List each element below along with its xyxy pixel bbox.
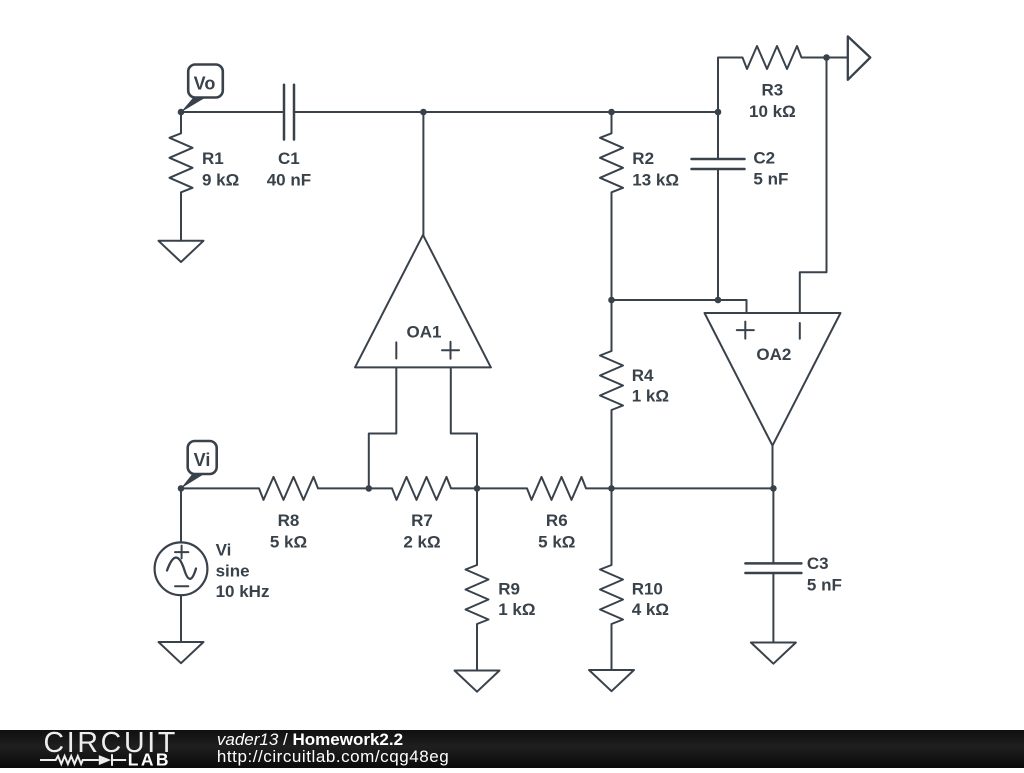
svg-text:R2: R2 — [632, 149, 654, 168]
svg-text:9 kΩ: 9 kΩ — [202, 170, 239, 189]
svg-text:Vi: Vi — [216, 541, 232, 560]
svg-text:5 kΩ: 5 kΩ — [270, 532, 307, 551]
svg-text:1 kΩ: 1 kΩ — [632, 387, 669, 406]
svg-text:R3: R3 — [762, 81, 784, 100]
svg-text:5 nF: 5 nF — [753, 170, 788, 189]
svg-text:OA2: OA2 — [756, 345, 791, 364]
svg-text:R10: R10 — [632, 579, 663, 598]
svg-text:LAB: LAB — [128, 750, 171, 769]
svg-text:40 nF: 40 nF — [267, 170, 311, 189]
svg-text:5 nF: 5 nF — [807, 575, 842, 594]
svg-text:13 kΩ: 13 kΩ — [632, 170, 679, 189]
svg-text:OA1: OA1 — [407, 323, 442, 342]
svg-text:R7: R7 — [411, 511, 433, 530]
svg-text:http://circuitlab.com/cqg48eg: http://circuitlab.com/cqg48eg — [217, 747, 449, 766]
svg-text:R6: R6 — [546, 511, 568, 530]
svg-text:Vi: Vi — [194, 450, 211, 470]
svg-text:R9: R9 — [498, 579, 520, 598]
svg-text:4 kΩ: 4 kΩ — [632, 600, 669, 619]
svg-text:Vo: Vo — [194, 74, 216, 94]
svg-text:2 kΩ: 2 kΩ — [403, 532, 440, 551]
svg-text:C2: C2 — [753, 148, 775, 167]
svg-text:R1: R1 — [202, 149, 224, 168]
svg-text:R8: R8 — [278, 511, 300, 530]
svg-text:1 kΩ: 1 kΩ — [498, 600, 535, 619]
svg-text:5 kΩ: 5 kΩ — [538, 532, 575, 551]
svg-text:sine: sine — [216, 561, 250, 580]
svg-text:C1: C1 — [278, 149, 300, 168]
svg-text:C3: C3 — [807, 554, 829, 573]
svg-text:10 kHz: 10 kHz — [216, 582, 270, 601]
svg-text:10 kΩ: 10 kΩ — [749, 102, 796, 121]
svg-text:R4: R4 — [632, 366, 654, 385]
